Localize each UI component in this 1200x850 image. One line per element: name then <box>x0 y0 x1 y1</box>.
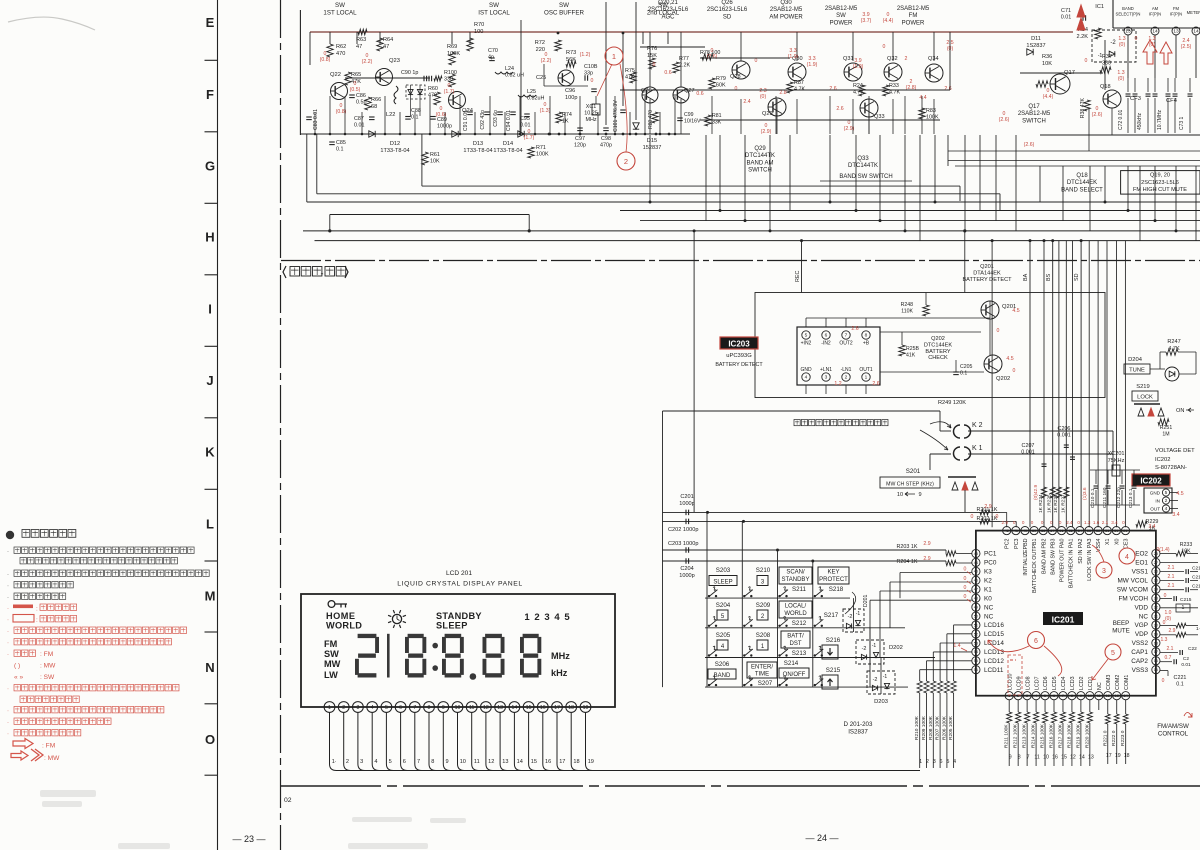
svg-text:PROTECT: PROTECT <box>819 577 848 583</box>
svg-text:G: G <box>205 159 215 174</box>
svg-text:LOCK: LOCK <box>1137 395 1153 401</box>
wires COM pins R221-R223 <box>1107 700 1109 714</box>
svg-text:DTA144EK: DTA144EK <box>973 271 1001 277</box>
svg-text:14: 14 <box>517 759 523 765</box>
vertical to key matrix <box>693 231 695 513</box>
svg-text:R213 100K: R213 100K <box>1022 723 1028 748</box>
red dashed highlight near LCD10 <box>1010 659 1016 661</box>
svg-text:1: 1 <box>612 52 616 61</box>
svg-text:30: 30 <box>1114 529 1118 533</box>
switch S219 symbol <box>1134 403 1160 405</box>
svg-text:IC201: IC201 <box>1052 615 1075 625</box>
svg-text:47K: 47K <box>625 75 635 81</box>
crystal XC1 10.25MHz <box>595 96 597 104</box>
svg-text:IF(P)N: IF(P)N <box>1149 11 1161 16</box>
svg-text:8: 8 <box>1018 755 1021 761</box>
svg-text:12: 12 <box>488 759 494 765</box>
svg-text:0.82uH: 0.82uH <box>527 96 544 102</box>
svg-text:+B: +B <box>863 341 870 347</box>
svg-text:NC: NC <box>984 613 994 620</box>
svg-text:0: 0 <box>996 514 999 520</box>
svg-text:X1: X1 <box>1105 538 1111 545</box>
IC201 right pins <box>1152 549 1160 557</box>
wire row C201 <box>663 511 1001 513</box>
svg-text:C218: C218 <box>1192 584 1200 590</box>
svg-text:uPC393G: uPC393G <box>726 353 752 359</box>
svg-text:Q19, 20: Q19, 20 <box>1150 173 1170 179</box>
svg-text:110K: 110K <box>901 308 913 314</box>
svg-text:1K: 1K <box>562 119 569 125</box>
svg-text:R72: R72 <box>535 40 545 46</box>
resistor R80 470 <box>652 112 658 123</box>
svg-text:9: 9 <box>1009 755 1012 761</box>
svg-text:S203: S203 <box>716 567 731 574</box>
svg-text:Q28: Q28 <box>730 74 741 80</box>
svg-text:SWITCH: SWITCH <box>1022 118 1046 124</box>
wire row C204 <box>663 560 947 562</box>
svg-text:47: 47 <box>383 44 389 50</box>
resistor R64 47 <box>377 38 383 51</box>
svg-text:SW: SW <box>836 13 846 19</box>
svg-text:R60: R60 <box>428 86 438 92</box>
boxed label TUNE <box>1124 364 1150 374</box>
svg-text:R217 100K: R217 100K <box>1057 723 1063 748</box>
svg-text:470: 470 <box>428 93 437 99</box>
svg-text:C70: C70 <box>488 48 498 54</box>
capacitor C97 120p <box>577 127 583 129</box>
resistor R229 1K <box>1136 521 1147 527</box>
svg-text:(4.4): (4.4) <box>1043 94 1054 100</box>
svg-text:6: 6 <box>1034 638 1038 645</box>
svg-text:46: 46 <box>974 579 978 583</box>
svg-text:100: 100 <box>474 29 483 35</box>
red circled 6 <box>1028 632 1045 649</box>
diode D12 1T33-T8-04 <box>369 131 375 137</box>
svg-text:COM1: COM1 <box>1124 675 1130 690</box>
svg-text:R61: R61 <box>430 152 440 158</box>
svg-text:BAND AM: BAND AM <box>746 160 773 166</box>
svg-text:R205 100K: R205 100K <box>948 715 954 740</box>
svg-text:C95: C95 <box>520 116 530 122</box>
svg-text:X0: X0 <box>1114 538 1120 545</box>
svg-text:C205: C205 <box>960 364 973 370</box>
red circled 3 <box>1096 562 1112 578</box>
resistor R72 220 <box>555 40 561 51</box>
svg-text:2SAB12-M5: 2SAB12-M5 <box>770 7 803 13</box>
LCD seven-segment digit 8 (b) <box>445 634 462 638</box>
LCD key-protect icon <box>328 601 335 608</box>
resistor R78 100 <box>702 54 713 60</box>
svg-text:S209: S209 <box>756 602 771 609</box>
resistor R24 4.7K <box>859 85 865 96</box>
svg-text:S-80728AN-: S-80728AN- <box>1155 465 1187 471</box>
svg-text:L24: L24 <box>505 66 514 72</box>
top right wiring grid <box>640 46 705 48</box>
svg-text:Q17: Q17 <box>1028 104 1040 110</box>
svg-text:FM/AM/SW: FM/AM/SW <box>1157 723 1189 730</box>
vertical drops from RF to buses <box>649 135 651 202</box>
svg-text:K 2: K 2 <box>972 422 983 429</box>
svg-text:35: 35 <box>1069 529 1073 533</box>
diode D13 1T33-T8-04 <box>452 131 458 137</box>
svg-text:IS2837: IS2837 <box>848 728 868 735</box>
svg-text:39: 39 <box>1032 529 1036 533</box>
svg-text:S207: S207 <box>758 680 773 687</box>
svg-text:N: N <box>205 660 214 675</box>
svg-text:D13: D13 <box>473 141 483 147</box>
diode D11 1S2837 <box>1027 49 1033 55</box>
net BA vertical <box>1029 241 1031 528</box>
svg-text:12: 12 <box>1106 694 1110 698</box>
net BS vertical <box>1052 241 1054 528</box>
svg-text:2.2K: 2.2K <box>1076 34 1088 40</box>
svg-text:-2: -2 <box>848 614 853 620</box>
svg-text:C96: C96 <box>565 88 575 94</box>
svg-text:D203: D203 <box>874 699 888 705</box>
transistor Q33 <box>860 99 878 117</box>
resistor R36 10K <box>1036 81 1048 87</box>
svg-text:C202 1000p: C202 1000p <box>668 527 698 533</box>
svg-text:9: 9 <box>446 759 449 765</box>
svg-text:BATTCHECK OUTPB1: BATTCHECK OUTPB1 <box>1032 538 1038 592</box>
svg-text:BA: BA <box>1023 273 1029 281</box>
svg-text:100K: 100K <box>536 152 549 158</box>
svg-text:4p: 4p <box>488 55 494 61</box>
svg-text:BATT/: BATT/ <box>787 634 804 640</box>
IC203 bottom pins 4-1 <box>802 373 810 381</box>
svg-text:26: 26 <box>1154 570 1158 574</box>
resistor R74 1K <box>556 112 562 123</box>
transistor Q28 <box>732 61 750 79</box>
svg-text:3: 3 <box>825 375 828 381</box>
paper crease top-left (faint) <box>8 17 95 30</box>
svg-text:2.1: 2.1 <box>1102 520 1109 525</box>
svg-text:2.8: 2.8 <box>779 90 786 96</box>
svg-text:SW: SW <box>489 2 499 9</box>
svg-text:10: 10 <box>897 492 903 498</box>
resistor R61 10K <box>422 152 428 165</box>
svg-text:BATTERY DETECT: BATTERY DETECT <box>715 362 763 368</box>
inductor L22 <box>394 86 398 104</box>
svg-text:2.1: 2.1 <box>1168 583 1175 589</box>
svg-text:Q23: Q23 <box>389 58 400 64</box>
svg-text:(0.5): (0.5) <box>350 87 361 93</box>
red circled 4 <box>1119 548 1135 564</box>
svg-text:0.6: 0.6 <box>696 91 703 97</box>
svg-text:14: 14 <box>1124 694 1128 698</box>
svg-text:25: 25 <box>1154 579 1158 583</box>
svg-text:PC1: PC1 <box>984 551 997 558</box>
svg-text:5: 5 <box>1111 650 1115 657</box>
svg-text:R87: R87 <box>794 80 804 86</box>
svg-text:(0.8): (0.8) <box>320 57 331 63</box>
svg-text:METER: METER <box>1187 10 1200 15</box>
svg-text:H: H <box>205 230 214 245</box>
resistor R251 1M <box>1158 419 1169 425</box>
svg-text:0: 0 <box>1162 678 1165 684</box>
LCD pin circles 1-19 <box>324 702 335 713</box>
svg-text:9: 9 <box>1080 694 1082 698</box>
svg-text:-2: -2 <box>873 677 878 683</box>
transistor Q30 <box>788 63 806 81</box>
svg-text:R219 100K: R219 100K <box>1075 723 1081 748</box>
svg-text:BAND: BAND <box>714 673 731 679</box>
svg-text:SLEEP: SLEEP <box>436 621 468 631</box>
svg-text:60K: 60K <box>716 83 726 89</box>
svg-text:R33: R33 <box>889 83 899 89</box>
svg-text:0: 0 <box>1041 520 1044 525</box>
svg-text:0: 0 <box>1059 520 1062 525</box>
svg-text:+IN2: +IN2 <box>801 341 812 347</box>
B+ supply line (red) <box>310 31 1073 33</box>
IC1 pins 13 14 13 14 <box>1124 27 1132 35</box>
svg-text:8: 8 <box>431 759 434 765</box>
svg-text:EO2: EO2 <box>1135 551 1148 558</box>
svg-text:0: 0 <box>971 514 974 520</box>
svg-text:16: 16 <box>545 759 551 765</box>
svg-text:34: 34 <box>1078 529 1082 533</box>
svg-text:LCD13: LCD13 <box>984 649 1004 656</box>
svg-text:FM: FM <box>909 13 918 19</box>
svg-text:+LN1: +LN1 <box>820 367 832 373</box>
red note circled 1 <box>605 47 623 65</box>
svg-text:0: 0 <box>964 576 967 582</box>
svg-text:R75: R75 <box>625 68 635 74</box>
inductor L24 0.82uH <box>495 72 513 74</box>
svg-text:MW CH STEP (KHz): MW CH STEP (KHz) <box>886 482 934 488</box>
svg-text:BAND SELECT: BAND SELECT <box>1061 187 1103 193</box>
svg-text:POWER: POWER <box>830 20 853 26</box>
svg-text:22: 22 <box>1154 606 1158 610</box>
svg-text:(1.9): (1.9) <box>853 64 864 70</box>
svg-text:Q31: Q31 <box>843 56 854 62</box>
svg-text:R81: R81 <box>712 113 722 119</box>
svg-text:2.9: 2.9 <box>984 504 991 510</box>
svg-text:75KHz: 75KHz <box>1108 458 1125 464</box>
svg-text:56K: 56K <box>566 57 576 63</box>
NC pin stub <box>1098 700 1100 710</box>
svg-text:1T33-T8-04: 1T33-T8-04 <box>463 148 492 154</box>
switch S211 SCAN/STANDBY <box>779 567 812 584</box>
svg-text:152837: 152837 <box>643 145 662 151</box>
svg-text:J: J <box>206 373 213 388</box>
svg-text:BAND SW SWITCH: BAND SW SWITCH <box>839 174 892 180</box>
svg-text:1000p: 1000p <box>437 124 452 130</box>
svg-text:D201: D201 <box>863 594 869 607</box>
svg-text:LCD14: LCD14 <box>984 640 1004 647</box>
wire loop inner y=214.5 <box>330 214 529 216</box>
svg-text:1.4: 1.4 <box>953 643 960 649</box>
capacitor C83 0.01 <box>306 116 312 118</box>
inductor L25 0.82uH <box>518 95 536 97</box>
svg-text:2SAB12-M5: 2SAB12-M5 <box>1018 111 1051 117</box>
svg-text:MW: MW <box>324 659 341 669</box>
svg-text:R66: R66 <box>371 97 381 103</box>
note line 14 (red kanji) <box>20 696 26 702</box>
svg-text::: : <box>36 606 38 613</box>
svg-text:7: 7 <box>417 759 420 765</box>
resistor R81 33K <box>705 115 711 126</box>
svg-text:(1.7): (1.7) <box>524 135 535 141</box>
net REC vertical <box>801 241 803 293</box>
svg-text:0: 0 <box>997 328 1000 334</box>
svg-text:31: 31 <box>1105 529 1109 533</box>
svg-text:SWITCH: SWITCH <box>748 168 772 174</box>
svg-text:D11: D11 <box>1031 36 1041 42</box>
svg-text:C93 6p: C93 6p <box>493 110 499 127</box>
svg-text:R74: R74 <box>562 112 572 118</box>
svg-text:10: 10 <box>460 759 466 765</box>
svg-text:2.9: 2.9 <box>923 556 930 562</box>
svg-text:VSS3: VSS3 <box>1132 667 1149 674</box>
svg-text:C215: C215 <box>1180 597 1192 603</box>
note shorting land (kanji) with arrows <box>794 420 800 426</box>
diode column verticals <box>853 598 855 632</box>
bus junction dots <box>328 229 331 232</box>
svg-text:BATTERY: BATTERY <box>925 349 951 355</box>
switch matrix column wires <box>706 512 708 687</box>
svg-text:0: 0 <box>883 44 886 50</box>
note arrow MW <box>11 751 28 760</box>
wire bus y=210.5 <box>620 210 1200 212</box>
svg-text:AM: AM <box>1152 6 1159 11</box>
IC203 top pins 5-8 <box>802 331 810 339</box>
svg-text:48: 48 <box>974 597 978 601</box>
svg-text:(0): (0) <box>1118 76 1125 82</box>
svg-text:0.1: 0.1 <box>960 370 967 376</box>
svg-text:BS: BS <box>1046 273 1052 281</box>
svg-text:2.6: 2.6 <box>851 326 858 332</box>
svg-text:C207: C207 <box>1022 443 1035 449</box>
svg-text:LOCAL/: LOCAL/ <box>785 604 807 610</box>
svg-text:KEY: KEY <box>827 570 839 576</box>
svg-text:15K: 15K <box>647 53 657 59</box>
svg-text:MHz: MHz <box>585 117 596 123</box>
schematic left border <box>299 10 301 135</box>
svg-text:R211 100K: R211 100K <box>1004 724 1010 748</box>
svg-text:·: · <box>7 709 9 715</box>
svg-text:VSS1: VSS1 <box>1132 569 1149 576</box>
svg-text:·: · <box>7 618 9 624</box>
svg-text:LCD9: LCD9 <box>1016 676 1022 690</box>
svg-text:R25B: R25B <box>906 346 920 352</box>
svg-text:Q33: Q33 <box>857 156 869 162</box>
svg-text:10: 10 <box>1043 755 1049 761</box>
svg-text:53: 53 <box>974 641 978 645</box>
svg-text:13: 13 <box>1115 694 1119 698</box>
svg-text:43: 43 <box>974 552 978 556</box>
svg-text:LCD6: LCD6 <box>1043 676 1049 690</box>
svg-text:1.2: 1.2 <box>834 381 841 387</box>
transistor Q23 <box>376 69 393 86</box>
svg-text:2: 2 <box>905 56 908 62</box>
svg-text:R80 470: R80 470 <box>648 110 654 129</box>
svg-text:47: 47 <box>356 44 362 50</box>
capacitor C87 0.01 <box>369 116 375 118</box>
svg-text:(2.9): (2.9) <box>761 129 772 135</box>
svg-text:2.6: 2.6 <box>829 86 836 92</box>
svg-text:19: 19 <box>583 705 589 711</box>
svg-text:MW VCOL: MW VCOL <box>1117 578 1148 585</box>
svg-text:VDD: VDD <box>1135 604 1149 611</box>
svg-text:(1.9): (1.9) <box>807 62 818 68</box>
svg-text:(0): (0) <box>760 94 767 100</box>
svg-text:EO1: EO1 <box>1135 560 1148 567</box>
svg-text:DTC144EK: DTC144EK <box>1067 180 1097 186</box>
svg-text:PC0: PC0 <box>984 560 997 567</box>
svg-text:1: 1 <box>919 759 922 765</box>
cap C215 <box>1160 598 1172 600</box>
svg-text:LCD2: LCD2 <box>1079 676 1085 690</box>
svg-text:IC1: IC1 <box>1095 4 1104 10</box>
svg-text:: FM: : FM <box>42 743 55 750</box>
svg-text:K2: K2 <box>984 578 992 585</box>
svg-text:C91 0.01: C91 0.01 <box>463 110 469 131</box>
svg-text:0.5p: 0.5p <box>356 100 367 106</box>
svg-text:2: 2 <box>534 612 539 623</box>
svg-text:2: 2 <box>845 375 848 381</box>
svg-text:R221 0: R221 0 <box>1102 730 1108 746</box>
svg-text:WORLD: WORLD <box>784 611 807 617</box>
svg-text:VSS2: VSS2 <box>1132 640 1149 647</box>
svg-text:R65: R65 <box>351 72 361 78</box>
svg-text:(3.7): (3.7) <box>861 18 872 24</box>
resistor R34 2.2K <box>1095 28 1101 39</box>
svg-text:IC203: IC203 <box>728 340 750 349</box>
svg-text:(2.5): (2.5) <box>1181 44 1192 50</box>
resistor R77 2.2K <box>673 62 679 73</box>
svg-text:CHECK: CHECK <box>928 355 948 361</box>
resistor R248 110K <box>923 305 929 316</box>
svg-text:F: F <box>206 87 214 102</box>
svg-text:( ): ( ) <box>14 663 20 670</box>
svg-text:S211: S211 <box>792 586 807 593</box>
svg-text:Q34: Q34 <box>928 56 939 62</box>
svg-text:4.7K: 4.7K <box>853 90 864 96</box>
boxed label LOCK <box>1132 391 1158 401</box>
svg-text:K3: K3 <box>984 569 992 576</box>
svg-text:WORLD: WORLD <box>326 621 362 631</box>
svg-text:R69: R69 <box>447 44 457 50</box>
capacitor C91 0.01 <box>467 111 473 113</box>
svg-text:1: 1 <box>524 612 530 623</box>
svg-text:-1: -1 <box>883 674 888 680</box>
svg-text:0: 0 <box>653 62 656 68</box>
svg-text:6: 6 <box>940 759 943 765</box>
svg-text:10K: 10K <box>430 159 440 165</box>
svg-text:DTC144EK: DTC144EK <box>924 342 953 348</box>
svg-text:10.25: 10.25 <box>584 111 598 117</box>
svg-text:C85: C85 <box>336 140 346 146</box>
IC201 bottom pins <box>1005 692 1013 700</box>
svg-text:7: 7 <box>845 333 848 339</box>
svg-text:54: 54 <box>974 650 978 654</box>
svg-text:0: 0 <box>1013 520 1016 525</box>
resistor R87 4.7K <box>787 82 793 93</box>
svg-text:LOCK SW IN PA3: LOCK SW IN PA3 <box>1087 538 1093 580</box>
svg-text:50: 50 <box>974 614 978 618</box>
svg-text:18: 18 <box>1154 641 1158 645</box>
svg-text:D12: D12 <box>390 141 400 147</box>
svg-text:3: 3 <box>1102 568 1106 575</box>
svg-text:R24: R24 <box>853 83 863 89</box>
svg-text:51: 51 <box>974 623 978 627</box>
LCD pin wires <box>330 712 337 770</box>
svg-text:330: 330 <box>1102 61 1111 67</box>
svg-text:C98: C98 <box>601 136 611 142</box>
svg-text:(0): (0) <box>1165 616 1171 622</box>
svg-text:Q202: Q202 <box>931 336 945 342</box>
